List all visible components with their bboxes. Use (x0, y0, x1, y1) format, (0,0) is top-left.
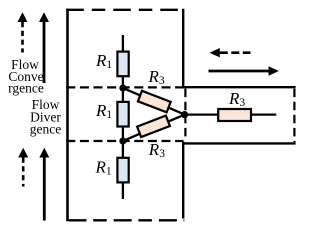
svg-text:rgence: rgence (8, 80, 44, 95)
svg-text:R3: R3 (148, 67, 165, 87)
svg-text:R3: R3 (148, 140, 165, 160)
svg-text:R3: R3 (228, 89, 245, 109)
svg-text:R1: R1 (95, 101, 112, 121)
svg-text:R1: R1 (95, 51, 112, 71)
svg-text:R1: R1 (95, 158, 112, 178)
svg-text:gence: gence (30, 121, 61, 136)
